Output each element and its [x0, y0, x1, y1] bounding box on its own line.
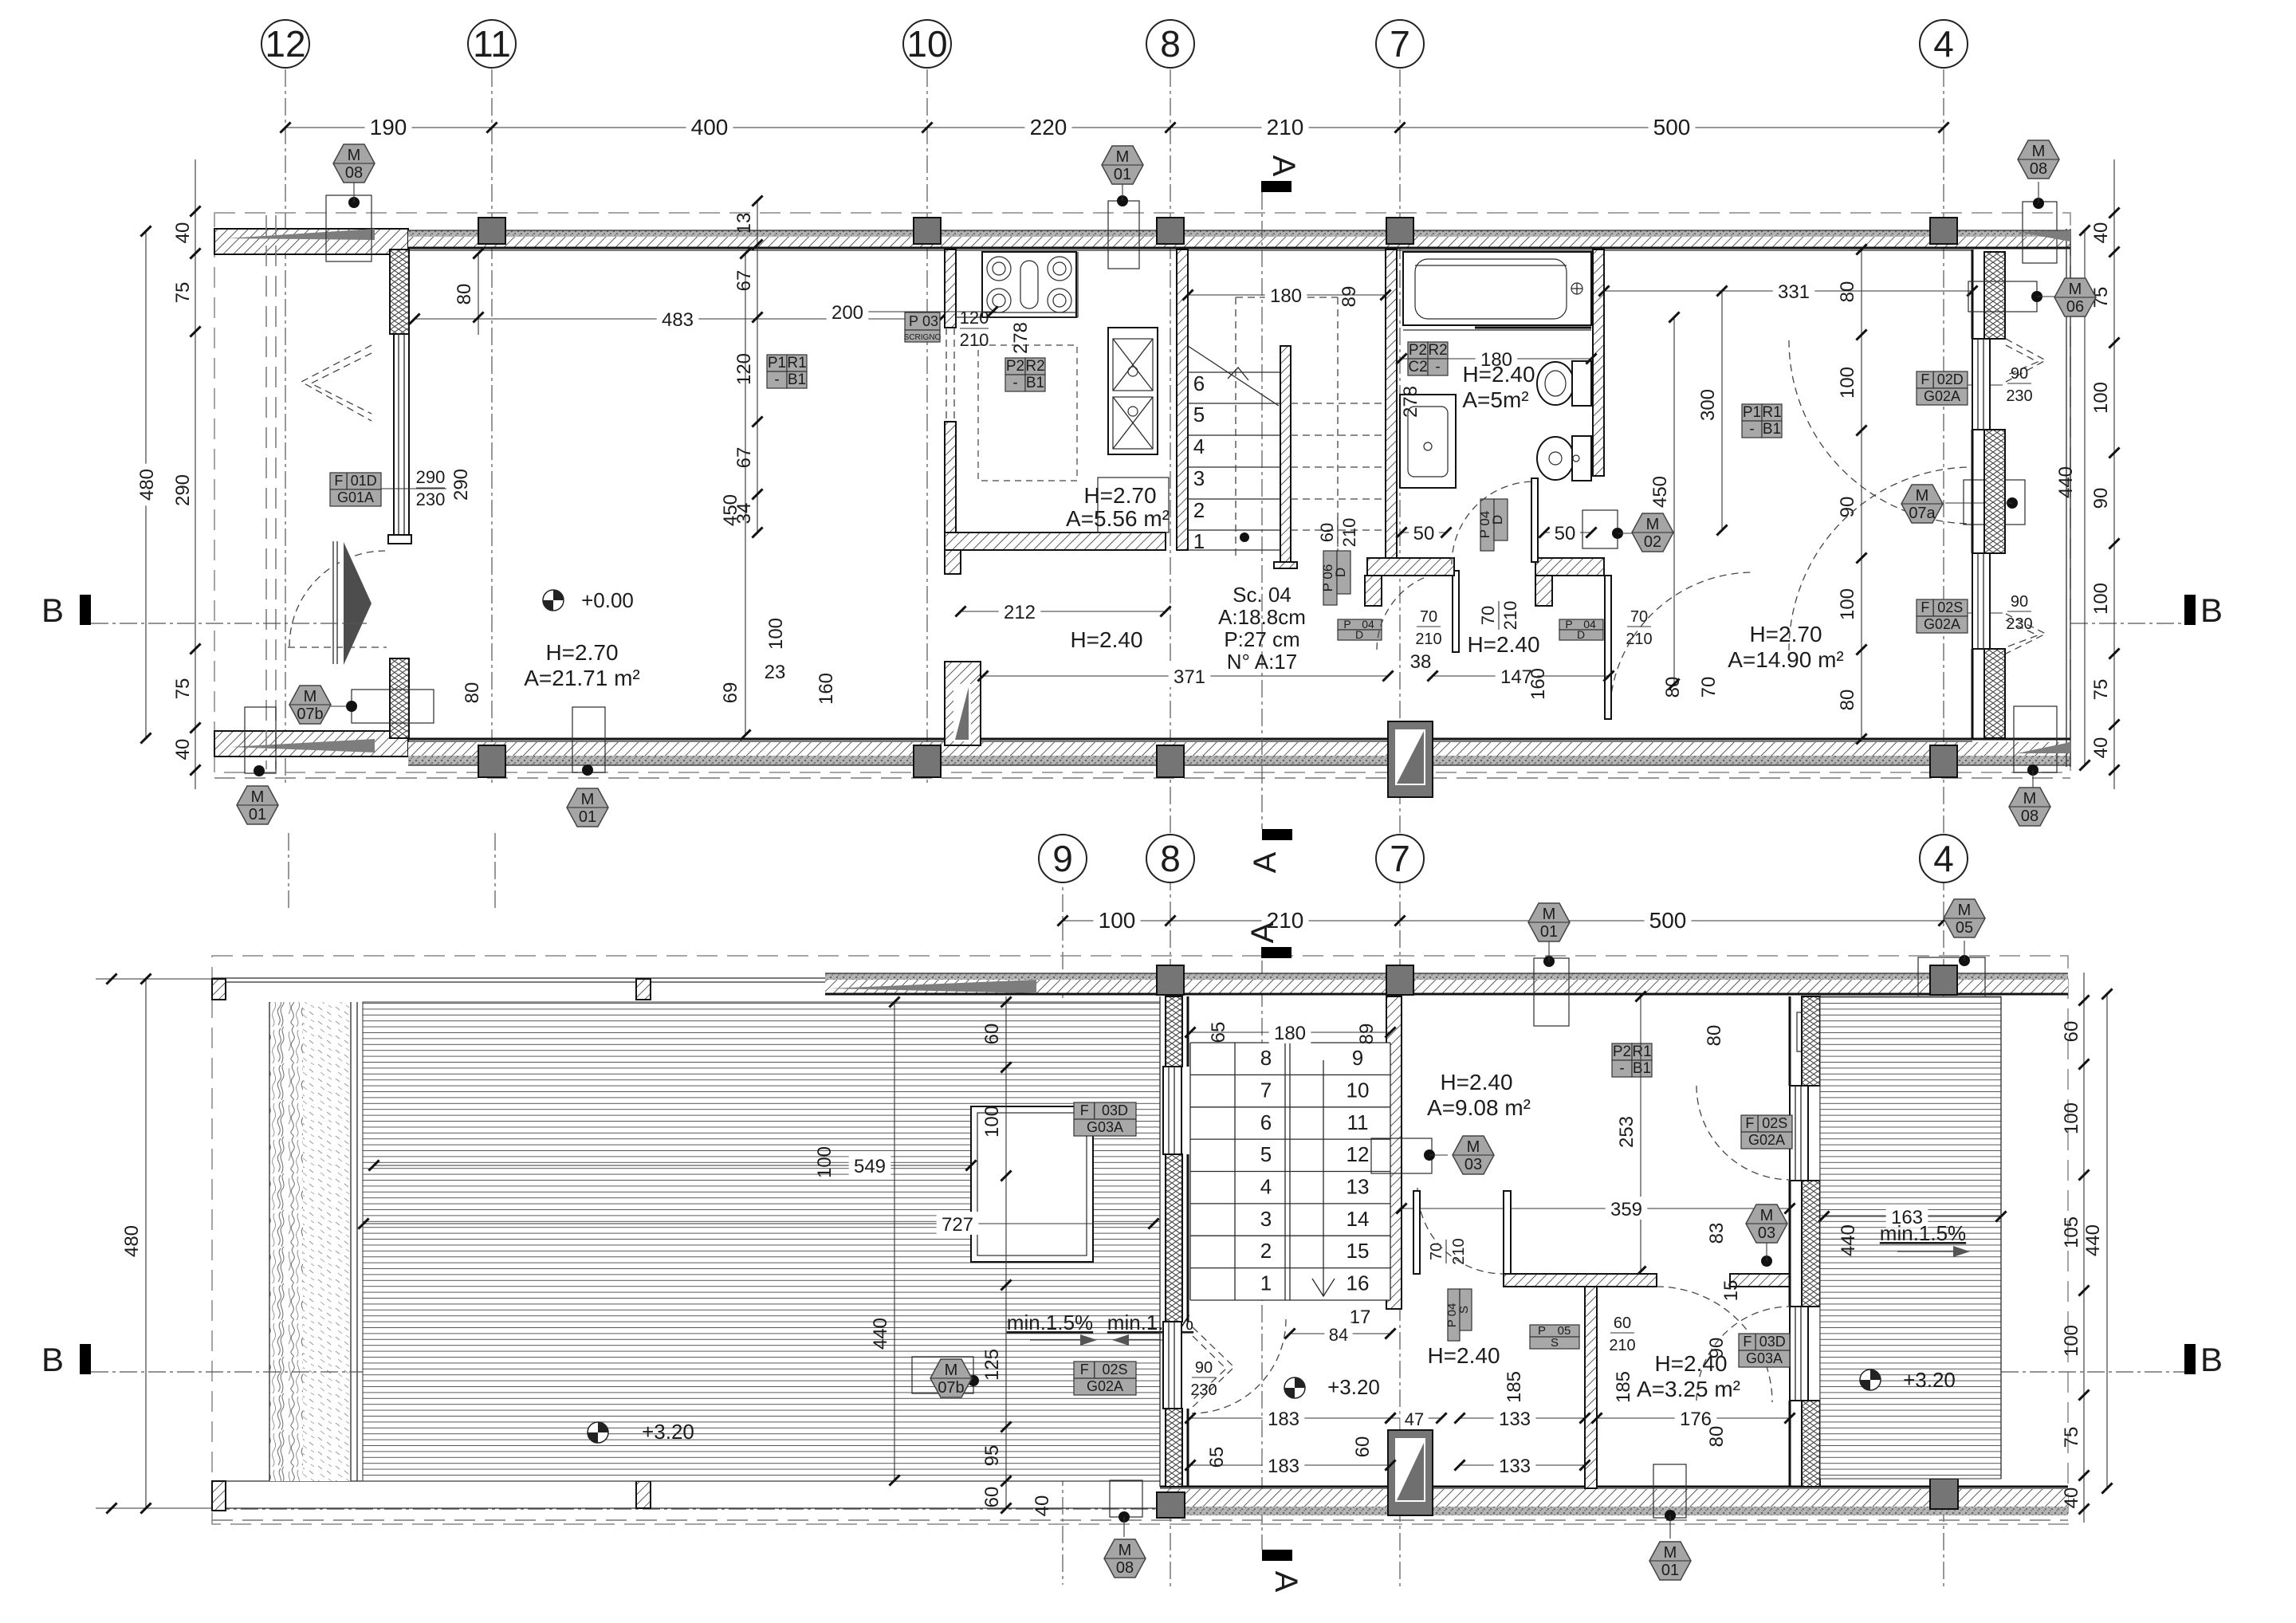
- terrace bottom edge: [212, 1480, 1160, 1482]
- svg-text:65: 65: [1208, 1022, 1229, 1043]
- svg-text:440: 440: [2082, 1224, 2104, 1256]
- terrace column d: [636, 1481, 651, 1508]
- right wall insulation 814: [1984, 649, 2005, 738]
- svg-text:H=2.40: H=2.40: [1070, 627, 1142, 652]
- column top wall x1163: [914, 218, 941, 244]
- hall door arc bottomleft: [1192, 1319, 1286, 1413]
- svg-text:185: 185: [1613, 1371, 1634, 1403]
- top wall hatch band: [408, 237, 2070, 247]
- bottom wall speckle band: [408, 756, 2070, 765]
- dim 183 row1: [1185, 1406, 1395, 1430]
- svg-text:105: 105: [2061, 1216, 2082, 1248]
- svg-text:M: M: [348, 147, 361, 164]
- svg-text:11: 11: [473, 23, 511, 65]
- svg-text:12: 12: [265, 23, 305, 65]
- entry door arc: [289, 551, 385, 646]
- plan2 right wall piece 1481: [1802, 1181, 1820, 1307]
- label P04/D hall1: [1338, 618, 1382, 641]
- bathroom wall pier2: [1535, 576, 1552, 606]
- label P1R1/-B1 living: [767, 355, 807, 388]
- svg-text:133: 133: [1499, 1456, 1531, 1477]
- svg-text:38: 38: [1410, 651, 1432, 673]
- svg-text:75: 75: [2090, 679, 2112, 701]
- svg-text:02S: 02S: [1102, 1362, 1127, 1377]
- svg-text:5: 5: [1260, 1142, 1272, 1166]
- right shutter triangle top: [2017, 230, 2070, 242]
- stair data Sc.04: [1218, 583, 1306, 674]
- plan2 top wall hatch: [825, 980, 2068, 994]
- svg-text:47: 47: [1405, 1409, 1424, 1429]
- svg-text:80: 80: [462, 682, 483, 704]
- svg-text:M: M: [1543, 906, 1556, 923]
- dim 450 living: [720, 248, 751, 740]
- svg-text:02D: 02D: [1937, 371, 1964, 387]
- svg-text:03D: 03D: [1102, 1102, 1128, 1118]
- column top wall x617: [478, 218, 505, 244]
- label P2R2/C2 bath: [1408, 342, 1448, 375]
- svg-text:67: 67: [733, 447, 755, 469]
- dim 60/210 stair door: [1317, 518, 1359, 548]
- svg-text:M: M: [1760, 1207, 1774, 1224]
- duct shaft grid7: [1388, 721, 1433, 797]
- svg-text:02: 02: [1644, 533, 1661, 551]
- label P2R1 roomA: [1612, 1043, 1652, 1077]
- label P05/S: [1530, 1324, 1579, 1350]
- vertical wall small rooms: [1585, 1287, 1597, 1488]
- dim 120/210 scrigno: [960, 308, 989, 350]
- plan1 dashed line below bottom wall: [214, 777, 2070, 779]
- svg-text:80: 80: [454, 284, 475, 305]
- svg-text:450: 450: [1649, 476, 1671, 508]
- right dim stack bottom plan: [2061, 973, 2090, 1523]
- svg-text:P:27 cm: P:27 cm: [1224, 627, 1299, 651]
- dim 133 row2: [1454, 1453, 1590, 1477]
- svg-text:230: 230: [416, 489, 446, 509]
- svg-text:80: 80: [1662, 677, 1684, 698]
- grid line 9: [1062, 837, 1063, 1585]
- svg-text:120: 120: [960, 308, 989, 328]
- section B right marker: [2070, 591, 2223, 629]
- dim 50 b: [1539, 521, 1596, 544]
- kitchen dim stack 13/67/120/67/34: [733, 195, 763, 537]
- svg-text:440: 440: [2055, 466, 2077, 498]
- dim 90/135 left: [1190, 1099, 1217, 1139]
- svg-text:70: 70: [1698, 677, 1720, 698]
- grid bubble 7: [1376, 20, 1424, 68]
- svg-text:40: 40: [172, 222, 194, 244]
- dim 90/230 left: [1190, 1359, 1217, 1399]
- svg-text:11: 11: [1347, 1110, 1369, 1134]
- label P1R1/-B1 bedroom: [1742, 404, 1782, 438]
- svg-text:15: 15: [1347, 1239, 1370, 1263]
- svg-text:B1: B1: [1633, 1060, 1651, 1077]
- svg-text:D: D: [1490, 515, 1505, 525]
- svg-text:03: 03: [1464, 1156, 1482, 1173]
- top wall outer line: [408, 230, 2070, 231]
- svg-text:3: 3: [1193, 466, 1205, 490]
- svg-text:40: 40: [2061, 1487, 2082, 1509]
- column top wall x2438: [1930, 218, 1957, 244]
- svg-text:M: M: [304, 688, 317, 705]
- door arc small room: [1657, 1287, 1772, 1402]
- left wall lower piece: [390, 658, 409, 738]
- svg-text:100: 100: [1837, 367, 1858, 399]
- svg-text:M: M: [581, 791, 595, 808]
- svg-text:15: 15: [1720, 1280, 1742, 1302]
- chevron F03D: [1193, 1072, 1234, 1157]
- roomA door jamb: [1504, 1191, 1511, 1274]
- svg-text:89: 89: [1339, 286, 1360, 308]
- M08 label bottom: [1104, 1480, 1146, 1578]
- dim 90/230 F02D: [2006, 365, 2032, 405]
- dim 440 right: [2055, 225, 2090, 770]
- plan2 column top x2438: [1930, 965, 1957, 995]
- svg-text:A: A: [1245, 922, 1280, 943]
- M08 label bottom right: [2009, 706, 2057, 826]
- svg-text:M: M: [1467, 1138, 1480, 1156]
- arc F03D right: [1696, 1307, 1790, 1401]
- svg-text:34: 34: [733, 503, 755, 525]
- plan2 column top x1756: [1386, 965, 1413, 995]
- svg-text:03: 03: [922, 313, 938, 329]
- svg-text:549: 549: [854, 1156, 886, 1177]
- svg-text:M: M: [1664, 1544, 1677, 1562]
- M07b label bottom plan: [912, 1357, 979, 1397]
- label P04/D vertical: [1477, 499, 1508, 551]
- bedroom dim stack 80/100/90/100/80: [1837, 244, 1867, 744]
- left wall upper piece: [390, 250, 409, 334]
- dim 60/210 P05: [1609, 1315, 1635, 1354]
- svg-text:160: 160: [1527, 668, 1549, 700]
- window F02D chevron: [2006, 339, 2046, 382]
- svg-text:83: 83: [1706, 1223, 1728, 1244]
- level marker +0.00: [543, 590, 564, 611]
- svg-text:05: 05: [1956, 919, 1973, 937]
- label P03 scrigno: [904, 312, 942, 342]
- svg-text:-: -: [1012, 375, 1017, 391]
- svg-text:359: 359: [1610, 1199, 1642, 1220]
- svg-text:07a: 07a: [1909, 505, 1936, 522]
- svg-text:290: 290: [416, 467, 446, 487]
- column bottom wall x617: [478, 745, 505, 777]
- svg-text:440: 440: [1838, 1224, 1859, 1256]
- svg-text:07b: 07b: [297, 705, 323, 723]
- svg-text:90: 90: [1195, 1359, 1213, 1377]
- svg-text:500: 500: [1653, 115, 1691, 140]
- svg-text:210: 210: [1500, 601, 1520, 631]
- terrace column b: [636, 979, 651, 1000]
- dim 371: [977, 664, 1393, 688]
- svg-text:G02A: G02A: [1924, 388, 1960, 404]
- stair left wall: [1177, 250, 1188, 550]
- svg-text:S: S: [1457, 1306, 1471, 1314]
- label F03D/G03A right: [1739, 1334, 1790, 1367]
- svg-text:133: 133: [1499, 1409, 1531, 1430]
- bathroom door arc: [1452, 481, 1535, 564]
- svg-text:253: 253: [1616, 1116, 1637, 1148]
- svg-text:4: 4: [1193, 434, 1205, 458]
- svg-text:80: 80: [1706, 1426, 1728, 1448]
- terrace bottom dashdot: [212, 1508, 1160, 1510]
- M08 label top left: [326, 144, 375, 261]
- svg-text:H=2.40: H=2.40: [1467, 632, 1539, 657]
- svg-text:40: 40: [2090, 222, 2112, 244]
- leader F02S: [1968, 612, 2003, 614]
- stair landing dashed: [1236, 297, 1338, 558]
- svg-text:P: P: [1343, 618, 1350, 631]
- svg-text:10: 10: [1347, 1078, 1370, 1102]
- grid stub 12b: [288, 833, 289, 909]
- svg-text:400: 400: [691, 115, 729, 140]
- kitchen counter edge: [956, 316, 1078, 318]
- grid bubble 12: [261, 20, 309, 68]
- svg-text:D: D: [1333, 568, 1348, 577]
- dim 80 upper left: [454, 248, 484, 335]
- dim 440 right col: [2082, 988, 2113, 1493]
- svg-text:03D: 03D: [1759, 1334, 1786, 1350]
- svg-text:230: 230: [2006, 615, 2032, 633]
- svg-text:R2: R2: [1428, 342, 1447, 359]
- duct kitchen: [945, 662, 981, 745]
- right wall insulation 539: [1984, 430, 2005, 553]
- svg-text:210: 210: [960, 330, 989, 350]
- svg-text:371: 371: [1174, 666, 1205, 688]
- svg-text:+3.20: +3.20: [642, 1420, 694, 1444]
- svg-text:02S: 02S: [1937, 599, 1963, 615]
- svg-text:23: 23: [765, 662, 786, 683]
- svg-text:SCRIGNO: SCRIGNO: [904, 333, 942, 342]
- plan2 right wall piece 1250: [1802, 996, 1820, 1086]
- svg-text:290: 290: [172, 474, 194, 506]
- dim 183 row2: [1185, 1453, 1395, 1477]
- grid line 11: [491, 69, 493, 785]
- svg-text:A=21.71 m²: A=21.71 m²: [524, 666, 640, 690]
- svg-text:89: 89: [1356, 1024, 1378, 1045]
- svg-text:A=5.56 m²: A=5.56 m²: [1066, 506, 1170, 531]
- stair stringer wall: [1280, 346, 1291, 562]
- svg-text:90: 90: [2090, 488, 2112, 509]
- entry door leaf: [333, 541, 337, 664]
- svg-text:05: 05: [1558, 1324, 1571, 1338]
- svg-text:A=14.90 m²: A=14.90 m²: [1728, 647, 1844, 672]
- svg-text:13: 13: [733, 213, 755, 234]
- svg-text:08: 08: [2021, 808, 2038, 825]
- svg-text:M: M: [1119, 1542, 1132, 1559]
- M01 label bottom left1: [237, 707, 278, 824]
- section A bottom flag 2: [1262, 1550, 1303, 1593]
- svg-text:H=2.40: H=2.40: [1440, 1070, 1512, 1094]
- svg-text:100: 100: [2061, 1325, 2082, 1357]
- column top wall x1756: [1386, 218, 1413, 244]
- kitchen base cabinet: [1098, 477, 1169, 532]
- plan2 top wall speckle: [825, 973, 2068, 980]
- top wall left parapet hatch: [214, 229, 408, 254]
- svg-text:210: 210: [1415, 631, 1441, 648]
- dim 176: [1591, 1406, 1795, 1430]
- label F02S/G02A left: [1074, 1362, 1136, 1395]
- dim 133 row1: [1454, 1406, 1590, 1430]
- svg-text:180: 180: [1270, 285, 1302, 307]
- M07b hexagon: [289, 686, 434, 724]
- entry door triangle: [344, 542, 372, 665]
- svg-text:01: 01: [1114, 166, 1131, 183]
- grid bubble 8: [1146, 20, 1194, 68]
- section B left marker: [41, 591, 367, 629]
- dim 450 bedroom: [1649, 312, 1680, 689]
- arc F02S right: [1696, 1086, 1790, 1180]
- stair break line: [1188, 346, 1279, 406]
- M01 label bottom left2: [567, 707, 608, 827]
- plan2 right wall piece 1757: [1802, 1401, 1820, 1487]
- svg-text:13: 13: [1347, 1175, 1370, 1199]
- svg-text:M: M: [2023, 790, 2037, 808]
- svg-text:185: 185: [1504, 1371, 1525, 1403]
- section B left marker 2: [41, 1341, 363, 1378]
- svg-text:100: 100: [1099, 908, 1136, 933]
- svg-text:+3.20: +3.20: [1327, 1375, 1380, 1399]
- svg-text:F: F: [1921, 371, 1929, 387]
- svg-text:210: 210: [1267, 115, 1304, 140]
- svg-text:M: M: [2069, 281, 2082, 298]
- kitchen island dashed: [978, 345, 1077, 481]
- window F01D frame: [388, 334, 411, 544]
- svg-text:A:18.8cm: A:18.8cm: [1218, 605, 1306, 629]
- svg-text:H=2.70: H=2.70: [545, 640, 618, 665]
- svg-text:90: 90: [2011, 593, 2028, 611]
- svg-text:290: 290: [450, 469, 472, 501]
- svg-text:M: M: [945, 1362, 958, 1379]
- stair hidden treads dashed: [1291, 403, 1386, 530]
- dim 359: [1396, 1197, 1795, 1220]
- svg-text:R1: R1: [1632, 1043, 1651, 1060]
- stair2 guide line right: [1323, 1060, 1324, 1296]
- svg-text:60: 60: [1614, 1315, 1631, 1332]
- terrace projection dashed a: [265, 215, 267, 769]
- top wall left shutter triangle: [227, 229, 375, 240]
- plan2 column bottom grid4: [1930, 1479, 1958, 1509]
- toilet: [1537, 361, 1591, 406]
- roomA door leaf: [1413, 1191, 1420, 1274]
- top wall speckle band: [408, 230, 2070, 237]
- plan2 dashed outline: [212, 956, 2068, 1524]
- svg-text:70: 70: [1478, 606, 1498, 625]
- svg-text:01: 01: [1661, 1562, 1679, 1579]
- svg-text:80: 80: [1704, 1025, 1725, 1047]
- svg-text:08: 08: [345, 164, 363, 182]
- plan2 right wall lines: [1789, 996, 1791, 1086]
- svg-text:278: 278: [1400, 386, 1421, 418]
- svg-text:F: F: [334, 473, 343, 489]
- svg-text:H=2.70: H=2.70: [1083, 483, 1156, 508]
- M05 label: [1918, 899, 1985, 1015]
- plan2 bottom wall hatch: [1160, 1489, 2068, 1507]
- section B right marker 2: [2001, 1341, 2223, 1378]
- section A line: [1261, 192, 1263, 829]
- svg-text:100: 100: [814, 1146, 835, 1178]
- chevron F03D right: [1826, 1311, 1866, 1396]
- bathtub shelf: [1403, 329, 1591, 331]
- svg-text:G02A: G02A: [1087, 1378, 1123, 1394]
- grid line 4: [1943, 69, 1944, 1587]
- grid bubble 10: [903, 20, 951, 68]
- section A bottom flag: [1248, 829, 1292, 873]
- plan2 bottom dashed: [212, 1519, 2068, 1521]
- bedroom arc F02S: [1789, 467, 1972, 650]
- svg-text:90: 90: [2011, 365, 2028, 383]
- svg-text:N° A:17: N° A:17: [1227, 650, 1297, 674]
- svg-text:70: 70: [1420, 608, 1437, 626]
- svg-text:F: F: [1743, 1334, 1751, 1350]
- svg-text:180: 180: [1274, 1023, 1306, 1044]
- level marker +3.20 hall: [1284, 1377, 1305, 1398]
- svg-text:A=3.25 m²: A=3.25 m²: [1637, 1377, 1740, 1401]
- svg-text:03: 03: [1758, 1224, 1775, 1242]
- terrace column a: [212, 979, 226, 1000]
- M02 label: [1582, 510, 1673, 552]
- svg-text:-: -: [1619, 1060, 1624, 1077]
- level marker +3.20 right: [1860, 1370, 1881, 1390]
- svg-text:4: 4: [1933, 23, 1954, 65]
- svg-text:480: 480: [136, 469, 158, 501]
- dim 47: [1385, 1407, 1446, 1429]
- svg-text:M: M: [1116, 148, 1130, 166]
- svg-text:1: 1: [1193, 529, 1205, 553]
- plan2 top wall inner line: [825, 993, 2068, 996]
- svg-text:483: 483: [662, 309, 694, 331]
- window F02S chevron: [2006, 614, 2046, 654]
- svg-text:90: 90: [1837, 497, 1858, 518]
- bedroom arc F02D: [1789, 340, 1972, 524]
- svg-text:B: B: [41, 591, 64, 629]
- svg-text:60: 60: [2061, 1021, 2082, 1043]
- bedroom door arc: [1610, 572, 1753, 716]
- terrace top edge: [212, 977, 825, 979]
- stove: [982, 252, 1076, 317]
- svg-text:160: 160: [816, 673, 837, 705]
- label P04/S vertical: [1445, 1289, 1472, 1341]
- grid bubble 4b: [1920, 835, 1968, 882]
- chevron F02S left: [1193, 1327, 1234, 1407]
- section A line 2: [1261, 961, 1263, 1550]
- svg-text:17: 17: [1350, 1307, 1371, 1328]
- svg-text:14: 14: [1347, 1207, 1370, 1231]
- dim 200 kitchen: [827, 300, 998, 324]
- svg-text:40: 40: [172, 739, 194, 760]
- M07a label: [1901, 480, 2025, 525]
- bottom wall hatch band: [408, 742, 2070, 756]
- dim 440 terrace: [870, 996, 900, 1485]
- svg-text:5: 5: [1193, 403, 1205, 426]
- min slope arrow 3: [1897, 1251, 1953, 1252]
- svg-text:min.1.5%: min.1.5%: [1007, 1311, 1093, 1334]
- stair2 guide line left: [1234, 1043, 1236, 1300]
- svg-text:G01A: G01A: [337, 489, 374, 505]
- svg-text:40: 40: [1032, 1495, 1053, 1517]
- M07b label right: [1797, 1009, 1896, 1051]
- right dim stack: [2090, 159, 2120, 789]
- svg-text:A=5m²: A=5m²: [1462, 387, 1528, 412]
- middle wall a: [1504, 1274, 1657, 1287]
- svg-text:60: 60: [1317, 523, 1337, 542]
- label F03D/G03A left: [1074, 1102, 1136, 1136]
- bottom wall left shutter triangle: [230, 739, 375, 753]
- bidet: [1537, 436, 1591, 481]
- dim 300 bedroom: [1697, 285, 1728, 535]
- svg-text:69: 69: [720, 682, 741, 704]
- terrace decking: [363, 1002, 1160, 1481]
- leader F02D: [1968, 384, 2003, 386]
- svg-text:Sc. 04: Sc. 04: [1233, 583, 1291, 607]
